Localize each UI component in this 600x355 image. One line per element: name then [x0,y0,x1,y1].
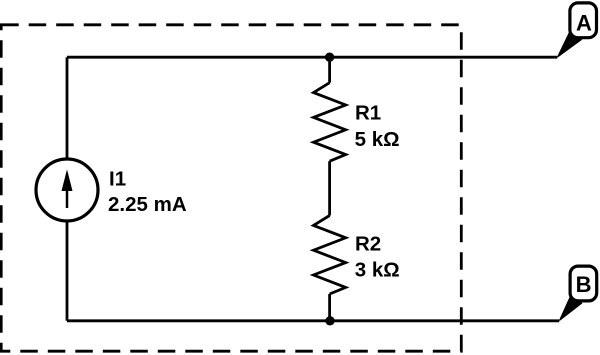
node junction dot bottom [325,316,334,325]
svg-text:2.25 mA: 2.25 mA [108,193,187,216]
wire bottom: node B rail [67,319,559,322]
terminal B box [570,266,597,301]
svg-text:R2: R2 [355,233,381,256]
terminal A box [570,3,597,38]
wire: resistor branch stub bottom [328,294,331,321]
wire left: current source branch [66,57,69,321]
svg-text:R1: R1 [355,101,381,124]
resistor R2 [314,216,346,295]
resistor R1 [314,83,346,162]
wire between R1 and R2 [328,161,331,215]
svg-text:B: B [576,272,592,297]
wire middle: resistor branch stub top [328,57,331,82]
node junction dot top [325,53,334,62]
dashed outline box [1,25,461,351]
current source I1 [36,159,98,221]
svg-text:5 kΩ: 5 kΩ [355,128,400,151]
svg-text:3 kΩ: 3 kΩ [355,259,400,282]
svg-text:I1: I1 [109,167,126,190]
terminal B flag pointer [559,294,582,321]
svg-text:A: A [576,11,592,36]
wire top: node A rail [67,56,557,59]
terminal A flag pointer [557,30,582,58]
